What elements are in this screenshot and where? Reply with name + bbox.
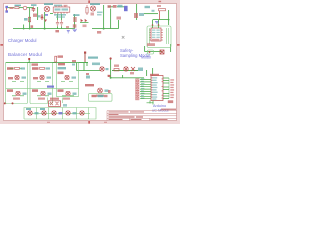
svg-text:Modul: Modul [141,55,151,59]
svg-text:Charger Modul: Charger Modul [8,38,36,43]
svg-text:Balancer Modul: Balancer Modul [8,52,42,57]
